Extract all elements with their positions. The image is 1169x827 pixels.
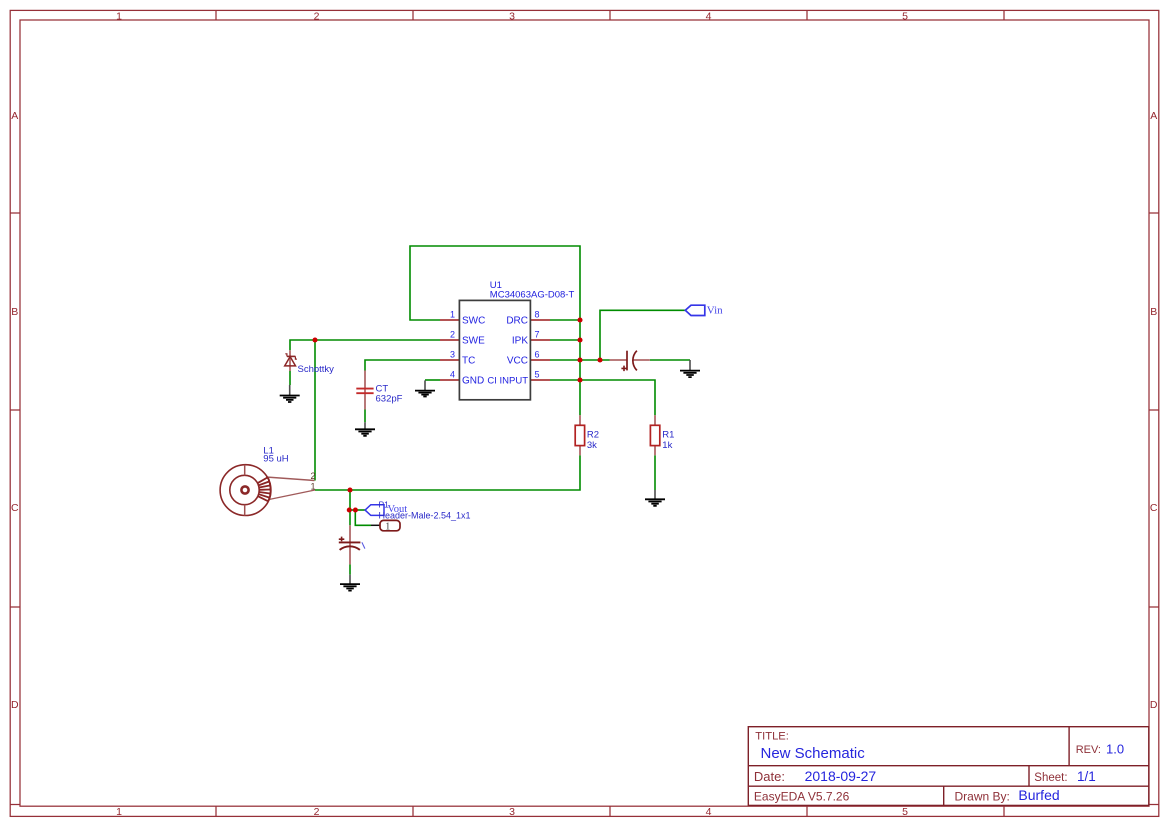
svg-text:CI INPUT: CI INPUT xyxy=(487,376,528,387)
svg-text:Vin: Vin xyxy=(707,304,723,316)
svg-text:C: C xyxy=(11,502,19,514)
svg-text:VCC: VCC xyxy=(507,356,528,367)
svg-text:Date:: Date: xyxy=(754,769,785,784)
svg-text:632pF: 632pF xyxy=(376,394,403,405)
svg-text:Burfed: Burfed xyxy=(1018,787,1059,803)
svg-text:3: 3 xyxy=(450,350,455,360)
svg-text:2: 2 xyxy=(314,11,320,23)
svg-text:2018-09-27: 2018-09-27 xyxy=(805,768,877,784)
svg-text:95 uH: 95 uH xyxy=(263,454,288,465)
svg-text:SWC: SWC xyxy=(462,316,485,327)
svg-text:2: 2 xyxy=(314,806,320,818)
svg-text:4: 4 xyxy=(706,806,712,818)
svg-text:IPK: IPK xyxy=(512,336,528,347)
svg-text:2: 2 xyxy=(450,330,455,340)
svg-text:New Schematic: New Schematic xyxy=(761,745,866,762)
svg-text:5: 5 xyxy=(902,11,908,23)
svg-text:Drawn By:: Drawn By: xyxy=(955,790,1010,804)
svg-text:GND: GND xyxy=(462,376,484,387)
svg-text:B: B xyxy=(11,306,18,318)
svg-text:Sheet:: Sheet: xyxy=(1034,772,1067,784)
svg-text:1k: 1k xyxy=(662,440,672,451)
svg-text:1: 1 xyxy=(385,522,390,533)
svg-text:5: 5 xyxy=(535,370,540,380)
svg-text:MC34063AG-D08-T: MC34063AG-D08-T xyxy=(490,290,575,301)
svg-text:D: D xyxy=(1150,699,1158,711)
svg-text:3: 3 xyxy=(509,11,515,23)
svg-text:C: C xyxy=(1150,502,1158,514)
svg-text:4: 4 xyxy=(706,11,712,23)
svg-text:SWE: SWE xyxy=(462,336,485,347)
svg-text:1.0: 1.0 xyxy=(1106,741,1124,756)
svg-text:1: 1 xyxy=(311,481,316,491)
svg-text:5: 5 xyxy=(902,806,908,818)
svg-text:TC: TC xyxy=(462,356,475,367)
svg-text:D: D xyxy=(11,699,19,711)
svg-text:3: 3 xyxy=(509,806,515,818)
svg-text:1: 1 xyxy=(450,310,455,320)
svg-text:REV:: REV: xyxy=(1076,744,1101,756)
svg-text:A: A xyxy=(11,110,18,122)
svg-text:Schottky: Schottky xyxy=(298,364,335,375)
svg-text:7: 7 xyxy=(535,330,540,340)
svg-text:TITLE:: TITLE: xyxy=(755,731,789,743)
svg-text:A: A xyxy=(1150,110,1157,122)
svg-text:DRC: DRC xyxy=(506,316,528,327)
svg-text:1/1: 1/1 xyxy=(1077,769,1096,784)
svg-text:1: 1 xyxy=(116,806,122,818)
svg-text:EasyEDA V5.7.26: EasyEDA V5.7.26 xyxy=(754,790,850,804)
svg-text:6: 6 xyxy=(535,350,540,360)
svg-text:8: 8 xyxy=(535,310,540,320)
svg-text:B: B xyxy=(1150,306,1157,318)
svg-text:Vout: Vout xyxy=(388,504,408,515)
svg-text:2: 2 xyxy=(311,471,316,481)
svg-text:4: 4 xyxy=(450,370,455,380)
svg-text:1: 1 xyxy=(116,11,122,23)
svg-text:3k: 3k xyxy=(587,440,597,451)
